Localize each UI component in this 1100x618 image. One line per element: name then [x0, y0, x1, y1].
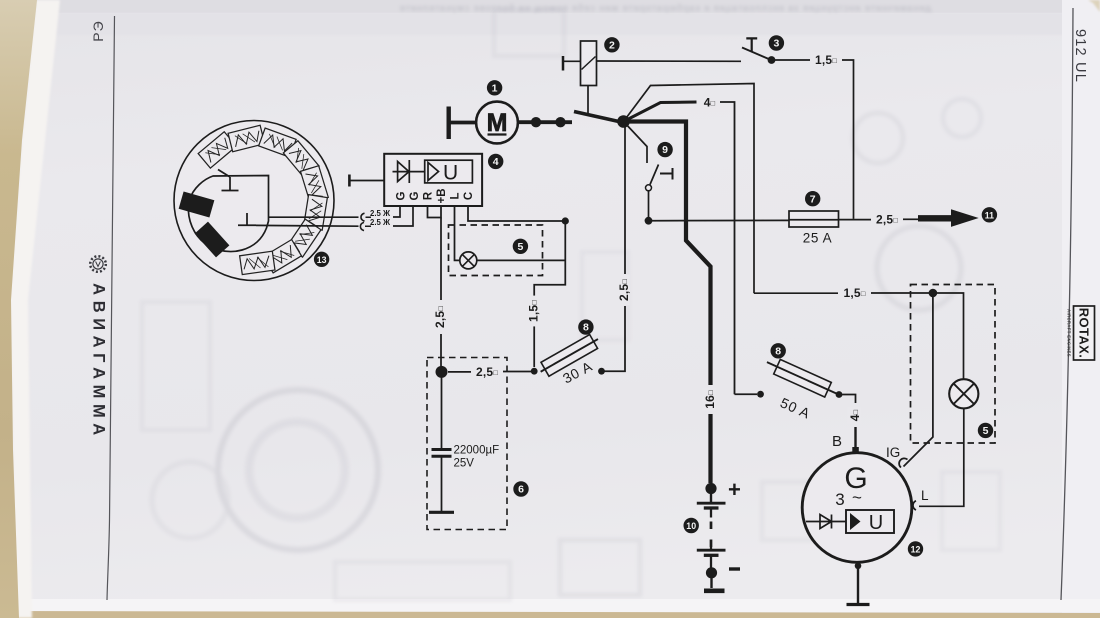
svg-text:9: 9	[662, 144, 668, 156]
svg-text:2: 2	[609, 39, 615, 51]
generator internal diode	[806, 515, 846, 529]
svg-text:3: 3	[773, 38, 779, 50]
svg-text:динамичните инструкция за експ: динамичните инструкция за експлоатация и…	[399, 3, 931, 13]
svg-text:L: L	[450, 192, 462, 199]
svg-text:25V: 25V	[454, 458, 475, 470]
svg-text:+B: +B	[436, 188, 448, 203]
connector dot b	[555, 117, 565, 127]
svg-text:4□: 4□	[704, 96, 716, 110]
thin wire junction to right bus (1,5)	[624, 84, 755, 294]
battery ground bar	[704, 588, 725, 593]
capacitor node dot	[436, 366, 448, 378]
stator output wire lower	[256, 224, 359, 227]
stator core outline	[188, 176, 268, 252]
svg-text:M: M	[487, 109, 508, 137]
starter relay coil 2	[581, 41, 597, 86]
svg-text:РЭ: РЭ	[90, 20, 106, 41]
svg-text:25 A: 25 A	[803, 231, 832, 246]
tan sliver top right corner	[1088, 0, 1100, 12]
svg-text:AIRCRAFT ENGINES: AIRCRAFT ENGINES	[1067, 309, 1072, 357]
wire switch 3 to bus (1,5)	[775, 59, 810, 61]
gear logo АВИАГАММА	[90, 256, 106, 272]
svg-text:2,5□: 2,5□	[876, 213, 898, 227]
numbered badge 5	[978, 423, 993, 438]
node dot 30A left	[531, 368, 538, 375]
tan table surface left wedge	[0, 0, 37, 618]
svg-text:8: 8	[583, 322, 589, 334]
battery 10	[710, 489, 712, 503]
fuse 30A (8)	[537, 332, 602, 379]
battery negative node	[706, 567, 717, 578]
numbered badge 10	[684, 518, 699, 533]
regulator pin labels G G R +B L C	[396, 188, 476, 203]
svg-text:1: 1	[492, 82, 498, 94]
thick battery wire 16	[624, 122, 711, 386]
numbered badge 12	[908, 541, 923, 556]
svg-text:12: 12	[911, 545, 921, 555]
connector symbols on stator wires	[361, 213, 365, 221]
svg-text:5: 5	[517, 241, 523, 253]
svg-text:2,5□: 2,5□	[476, 365, 498, 379]
numbered badge 3	[769, 35, 784, 50]
svg-text:10: 10	[686, 521, 696, 531]
wire L pin down to lamp	[455, 206, 461, 260]
wire +B down to capacitor node (2,5)	[440, 218, 442, 301]
svg-text:4□: 4□	[848, 409, 862, 421]
stator magnet (black coil) A	[179, 191, 215, 217]
starter motor M1 terminal bar	[447, 107, 451, 140]
ghost bleed-through from reverse page	[399, 3, 931, 13]
wire fuse to output	[839, 219, 872, 221]
regulator diode symbol	[393, 160, 425, 183]
wire switch 9 down	[648, 191, 650, 217]
tan table surface bottom edge	[0, 611, 1100, 618]
AIRCRAFT ENGINES small text	[1067, 309, 1072, 357]
svg-text:8: 8	[775, 345, 781, 357]
text РЭ top left (rotated)	[90, 20, 106, 41]
svg-text:R: R	[423, 191, 435, 200]
page border rule left	[107, 16, 115, 600]
numbered badge 6	[513, 481, 528, 496]
wire lamp down to L pin	[919, 408, 964, 506]
start button switch 3	[746, 38, 757, 51]
svg-text:4: 4	[493, 156, 499, 168]
svg-text:G: G	[409, 191, 421, 200]
svg-text:2,5□: 2,5□	[433, 306, 447, 328]
dashed enclosure lamp box 5	[449, 225, 543, 276]
node dot under switch 9	[645, 217, 653, 225]
svg-text:7: 7	[810, 193, 816, 205]
wire C pin to node over lamp box	[468, 206, 565, 221]
svg-text:U: U	[869, 512, 883, 534]
numbered badge 2	[604, 37, 619, 52]
svg-text:U: U	[443, 162, 458, 185]
wire B-line to fuse 50A	[735, 393, 758, 395]
numbered badge 1	[487, 80, 502, 95]
svg-text:1,5□: 1,5□	[526, 300, 540, 322]
stator internal coil tap T2	[238, 213, 256, 225]
node dot C	[562, 217, 569, 224]
dashed enclosure lamp box 5 right	[911, 285, 996, 444]
thick wire junction to 4-label	[624, 102, 697, 122]
stator magnet (black coil) B	[195, 222, 230, 258]
generator ground pin	[855, 563, 862, 570]
ground terminal generator	[847, 603, 870, 606]
wire right bus to lamp box (1,5)	[754, 292, 838, 294]
node dot 50A right	[836, 391, 843, 398]
battery positive node	[705, 483, 716, 494]
svg-text:22000µF: 22000µF	[454, 445, 500, 457]
fuse 25A (7)	[789, 211, 839, 227]
master switch 9 contact	[660, 168, 673, 180]
wire relay to ignition switch 3	[597, 60, 742, 62]
ROTAX logo box	[1074, 306, 1095, 360]
svg-text:5: 5	[983, 425, 989, 437]
svg-text:АВИАГАММА: АВИАГАММА	[90, 283, 108, 441]
starter contactor blade	[574, 112, 621, 123]
wire from C node down and left (1,5)	[534, 221, 565, 297]
numbered badge 13	[314, 252, 329, 267]
svg-text:2.5 Ж: 2.5 Ж	[370, 209, 391, 218]
wire 50A to generator B pin (4)	[839, 395, 856, 404]
wire motor to starter switch	[518, 120, 572, 124]
indicator lamp L1	[460, 252, 477, 269]
generator L pin connector	[913, 501, 916, 510]
svg-text:B: B	[832, 433, 842, 450]
text АВИАГАММА (rotated)	[90, 283, 108, 441]
svg-text:3: 3	[835, 490, 844, 509]
stator generator housing circle (13)	[174, 121, 334, 281]
wire junction down to fuse 30A (2,5)	[624, 126, 626, 274]
svg-text:G: G	[396, 191, 408, 200]
generator internal U block	[846, 510, 894, 533]
numbered badge 4	[488, 154, 503, 169]
svg-text:IG: IG	[886, 445, 900, 460]
wire 30A to capacitor node (2,5)	[503, 371, 531, 373]
svg-text:6: 6	[518, 484, 524, 496]
wire connector to G pins	[393, 206, 413, 226]
svg-text:+: +	[728, 477, 741, 502]
wire node down to IG pin	[904, 293, 933, 467]
wire node down to capacitor	[441, 372, 443, 448]
numbered badge 11	[982, 207, 997, 222]
svg-text:C: C	[463, 192, 475, 200]
svg-text:L: L	[921, 488, 929, 503]
generator B pin dot	[852, 447, 859, 454]
page border rule right	[1061, 8, 1073, 600]
connector dot a	[531, 117, 541, 127]
wire 4 to B-line	[720, 102, 735, 394]
wire relay coil to contactor	[587, 86, 589, 114]
svg-text:ROTAX.: ROTAX.	[1077, 308, 1092, 359]
svg-text:1,5□: 1,5□	[844, 286, 866, 300]
fuse 50A (8)	[764, 355, 842, 402]
stator internal coil tap T1	[218, 170, 239, 191]
generator G (12) circle	[802, 453, 912, 563]
regulator U block	[425, 160, 473, 183]
svg-text:~: ~	[852, 488, 862, 507]
node dot on 1,5 bus	[929, 289, 938, 298]
svg-text:2,5□: 2,5□	[617, 279, 631, 301]
stator coil windings	[198, 125, 328, 274]
svg-text:13: 13	[317, 255, 327, 265]
text 912 UL (rotated)	[1072, 29, 1088, 83]
numbered badge 8	[578, 319, 593, 334]
wire R and +B pins joined	[428, 206, 442, 218]
generator IG pin connector	[899, 458, 907, 467]
wire junction to master switch 9	[624, 122, 648, 164]
numbered badge 8	[771, 343, 786, 358]
wire capacitor to ground	[441, 456, 443, 511]
wire to fuse 25A	[649, 219, 790, 221]
starter motor M1	[476, 102, 518, 144]
node dot 30A right	[598, 368, 605, 375]
white page edge left	[10, 0, 60, 618]
dashed enclosure capacitor box 6	[427, 358, 507, 530]
numbered badge 9	[657, 142, 672, 157]
svg-text:16□: 16□	[703, 390, 717, 409]
bright paper edge strip bottom	[0, 599, 1100, 612]
output arrow 11	[918, 215, 953, 221]
stator output wire upper	[269, 216, 359, 218]
svg-text:11: 11	[985, 210, 994, 220]
warning lamp L2	[949, 379, 978, 408]
svg-text:2.5 Ж: 2.5 Ж	[370, 218, 391, 227]
wire lamp to C node vertical	[477, 259, 566, 261]
svg-text:912 UL: 912 UL	[1072, 29, 1088, 83]
node dot 50A left	[757, 391, 764, 398]
numbered badge 7	[805, 191, 820, 206]
capacitor C1 22000uF	[432, 450, 452, 457]
numbered badge 5	[513, 239, 528, 254]
ground terminal capacitor	[429, 511, 454, 514]
regulator left terminal bar	[348, 175, 351, 187]
relay terminal bar	[562, 56, 565, 71]
main junction node	[617, 115, 630, 128]
wire terminal to motor	[449, 121, 477, 125]
svg-text:1,5□: 1,5□	[815, 53, 837, 67]
switch 9 blade	[650, 165, 659, 185]
regulator-rectifier box U4	[384, 154, 482, 206]
